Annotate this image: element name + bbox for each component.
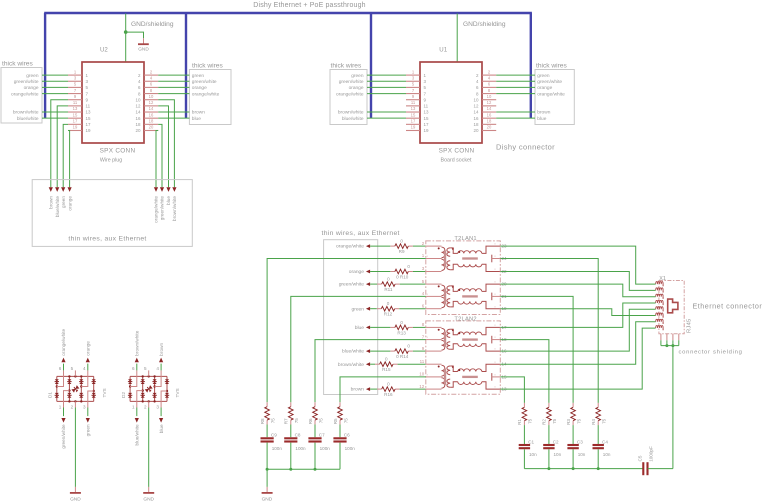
svg-text:13: 13 (424, 110, 430, 115)
diode array D1 column (68, 376, 70, 401)
svg-text:10n: 10n (554, 452, 562, 457)
arrow into aux box blue/white (55, 187, 59, 192)
wire U1 pin14 brown (496, 111, 535, 113)
svg-text:2: 2 (476, 73, 479, 78)
svg-text:x: x (427, 373, 429, 377)
pin 16 of U1 (482, 117, 496, 119)
wire blue arrow to resistor R13 (370, 326, 390, 328)
connector shield legs (660, 334, 662, 341)
svg-text:1000pF: 1000pF (648, 446, 653, 462)
svg-text:5: 5 (144, 366, 147, 371)
svg-text:75: 75 (294, 418, 299, 424)
svg-text:GND: GND (262, 496, 273, 502)
resistor R16 0 ohm (377, 388, 382, 390)
diode array D1 column (93, 376, 95, 401)
svg-text:7: 7 (74, 88, 77, 93)
svg-text:17: 17 (411, 119, 416, 124)
capacitor C4 10n (593, 444, 604, 446)
svg-text:green: green (351, 73, 364, 79)
svg-text:C3: C3 (577, 439, 583, 444)
svg-text:20: 20 (149, 125, 154, 130)
svg-text:15: 15 (86, 116, 92, 121)
svg-text:11: 11 (420, 359, 425, 364)
svg-text:U1: U1 (439, 46, 447, 53)
wire C9 to ground rail (266, 443, 268, 470)
resistor R9 0 ohm (390, 245, 395, 247)
svg-text:4: 4 (150, 75, 153, 80)
svg-text:blue: blue (159, 424, 164, 433)
svg-text:75: 75 (528, 418, 533, 424)
svg-text:8: 8 (138, 91, 141, 96)
capacitor C7 100n (308, 437, 321, 439)
svg-text:blue/white: blue/white (55, 196, 60, 218)
svg-text:GND/shielding: GND/shielding (463, 21, 506, 28)
svg-text:GND: GND (138, 46, 149, 51)
pin 15 of U1 (406, 117, 420, 119)
svg-text:green/white: green/white (61, 424, 66, 449)
pin 9 of U2 (68, 99, 82, 101)
svg-text:SPX CONN: SPX CONN (100, 147, 136, 154)
box thin wires aux Ethernet left (32, 180, 192, 247)
svg-text:4: 4 (156, 366, 159, 371)
wire resistor R9 to transformer (413, 245, 426, 247)
wire R4 to C4 (597, 425, 599, 444)
wire U2 pin9 to aux brown (51, 100, 68, 188)
svg-text:10n: 10n (578, 452, 586, 457)
pin 15 of U2 (68, 117, 82, 119)
capacitor C6 100n (333, 437, 346, 439)
wire branch to GND symbol (126, 32, 144, 38)
svg-text:3: 3 (86, 79, 89, 84)
junction on GND tap (124, 30, 128, 34)
svg-text:13: 13 (73, 106, 78, 111)
svg-text:x: x (427, 335, 429, 339)
pin 3 of U2 (68, 80, 82, 82)
wire U1 pin13 brown/white (367, 111, 406, 113)
svg-text:orange: orange (349, 85, 364, 91)
svg-text:T2LAN2: T2LAN2 (454, 316, 476, 322)
svg-text:100n: 100n (295, 446, 306, 451)
svg-text:11: 11 (424, 104, 429, 109)
transformer unit 2 secondary winding (447, 286, 450, 294)
wire ground rail 100n group (267, 468, 340, 470)
arrow net blue (159, 418, 163, 423)
diode array D2 column (129, 376, 131, 401)
svg-text:1: 1 (132, 404, 135, 409)
wire orange/white to D1 (63, 364, 65, 371)
wire shield down to C5 net (672, 346, 674, 469)
pin 5 of X1 RJ45 contact (656, 307, 663, 310)
pin 8 of U2 (144, 93, 158, 95)
resistor R7 75 ohm (290, 402, 292, 406)
svg-text:6: 6 (488, 82, 491, 87)
svg-text:orange/white: orange/white (336, 91, 364, 97)
svg-text:brown/white: brown/white (338, 110, 364, 116)
svg-text:10: 10 (487, 94, 492, 99)
svg-text:brown/white: brown/white (172, 196, 177, 221)
node green/white aux label + arrow (366, 282, 370, 286)
svg-text:thick wires: thick wires (536, 63, 567, 70)
wire U1 pin3 to thick wires (367, 80, 406, 82)
svg-text:brown: brown (192, 110, 205, 116)
wire primary center tap to R5 (340, 377, 426, 402)
wire R1 to C1 (523, 425, 525, 444)
wire U2 pin18 to aux green/white (158, 124, 162, 187)
svg-text:orange/white: orange/white (192, 91, 220, 97)
svg-text:orange: orange (537, 85, 552, 91)
wire U2 pin17 to aux green (63, 124, 68, 187)
diode array D2 column (154, 376, 156, 401)
ground GND 100n group (266, 487, 268, 493)
svg-text:5: 5 (424, 85, 427, 90)
svg-text:20: 20 (487, 125, 492, 130)
svg-text:brown/white: brown/white (13, 110, 39, 116)
svg-text:2: 2 (144, 404, 147, 409)
svg-text:8: 8 (150, 88, 153, 93)
svg-text:x: x (427, 292, 429, 296)
ground GND near U2 (143, 38, 145, 44)
pin 6 of D2 (130, 370, 137, 386)
wire shield bus (661, 345, 679, 347)
pin 20 of U2 (144, 129, 158, 131)
junction C5 rail (547, 467, 550, 470)
arrow net green/white (61, 418, 65, 423)
resistor R4 75 ohm (597, 403, 599, 407)
svg-text:10: 10 (473, 97, 479, 102)
wire U2 pin13 brown/white (42, 111, 68, 113)
wire transformer pin 17 to RJ45 pin4 (500, 303, 655, 327)
wire resistor R14 to transformer (413, 350, 426, 352)
wire transformer pin 13 to RJ45 pin8 (500, 328, 655, 389)
svg-text:GND: GND (143, 496, 154, 502)
node blue/white aux label + arrow (366, 349, 370, 353)
svg-text:3: 3 (424, 79, 427, 84)
transformer unit 3 secondary connections (482, 327, 501, 334)
pin 7 of X1 RJ45 contact (656, 319, 663, 322)
wire GND/shielding bus drop left of U1 to pin15 (370, 13, 372, 118)
svg-text:100n: 100n (345, 446, 356, 451)
svg-text:X1: X1 (659, 276, 666, 282)
svg-text:6: 6 (138, 85, 141, 90)
wire secondary center tap to R3 (500, 296, 573, 403)
svg-text:16: 16 (135, 116, 141, 121)
svg-text:brown: brown (159, 343, 164, 356)
svg-text:14: 14 (473, 110, 479, 115)
wire U2 pin1 to thick wires (42, 74, 68, 76)
arrow into aux box green/white (160, 187, 164, 192)
wire resistor R12 to transformer (399, 308, 426, 310)
wire resistor R10 to transformer (413, 271, 426, 273)
wire U2 pin5 to thick wires (42, 86, 68, 88)
pin 1 of U1 (406, 74, 420, 76)
transformer unit 2 secondary core (462, 295, 478, 297)
svg-text:7: 7 (86, 91, 89, 96)
resistor R1 75 ohm (523, 403, 525, 407)
transformer unit 3 secondary core (462, 338, 478, 340)
svg-text:8: 8 (422, 322, 425, 327)
wire resistor R16 to transformer (400, 388, 426, 390)
wire orange/white arrow to resistor R9 (370, 245, 390, 247)
svg-text:75: 75 (343, 418, 348, 424)
svg-text:4: 4 (422, 291, 425, 296)
diode array D2 junctions (142, 375, 144, 377)
svg-text:75: 75 (576, 418, 581, 424)
arrow net blue/white (135, 418, 139, 423)
svg-text:connector shielding: connector shielding (679, 350, 743, 356)
svg-text:blue/white: blue/white (135, 424, 140, 446)
svg-text:D2: D2 (121, 392, 126, 398)
wire C2 to C5 rail (548, 449, 550, 468)
svg-text:C2: C2 (553, 439, 559, 444)
svg-text:brown: brown (351, 387, 365, 393)
pin 19 of U1 (406, 129, 420, 131)
transformer unit 1 secondary winding (447, 248, 450, 256)
package outline T2LAN2 (426, 321, 501, 394)
svg-text:10n: 10n (603, 452, 611, 457)
svg-text:green/white: green/white (339, 79, 364, 85)
wire R3 to C3 (572, 425, 574, 444)
svg-text:Board socket: Board socket (441, 157, 472, 163)
svg-text:orange: orange (86, 341, 91, 356)
svg-text:blue/white: blue/white (17, 116, 39, 122)
svg-text:14: 14 (487, 106, 492, 111)
transformer unit 1 core (444, 250, 446, 267)
svg-text:100n: 100n (272, 446, 283, 451)
wire primary center tap to R7 (291, 296, 426, 402)
diode array D1 column (56, 376, 58, 401)
wire blue/white from D2 (136, 408, 138, 417)
capacitor C5 1000pF (642, 462, 644, 475)
wire U2 pin7 to thick wires (42, 93, 68, 95)
junction shield (665, 344, 668, 347)
pin 8 of X1 RJ45 contact (656, 326, 663, 329)
svg-text:U2: U2 (100, 46, 108, 53)
wire C7 to ground rail (314, 443, 316, 470)
svg-text:0: 0 (387, 382, 390, 387)
svg-text:75: 75 (318, 418, 323, 424)
transformer unit 3 secondary winding (447, 329, 450, 337)
svg-text:brown: brown (537, 110, 550, 116)
svg-text:thick wires: thick wires (331, 63, 362, 70)
svg-text:R13: R13 (397, 330, 406, 335)
pin 12 of U1 (482, 105, 496, 107)
pin 14 of U2 (144, 111, 158, 113)
diode array D1 junctions (68, 375, 70, 377)
pin 12 of U2 (144, 105, 158, 107)
svg-text:7: 7 (424, 91, 427, 96)
svg-text:orange: orange (67, 196, 72, 211)
svg-text:2: 2 (71, 404, 74, 409)
arrow into aux box orange/white (154, 187, 158, 192)
wire blue/white arrow to resistor R14 (370, 350, 390, 352)
svg-text:17: 17 (73, 119, 78, 124)
wire GND/shielding bus drop right of U1 to pin16 (530, 13, 532, 118)
wire orange arrow to resistor R10 (370, 271, 390, 273)
svg-text:4: 4 (476, 79, 479, 84)
svg-text:10: 10 (135, 97, 141, 102)
svg-text:blue/white: blue/white (342, 349, 364, 355)
wire C1 to C5 rail (523, 449, 525, 468)
wire U2 pin3 to thick wires (42, 80, 68, 82)
wire resistor R11 to transformer (400, 283, 426, 285)
svg-text:0: 0 (387, 301, 390, 306)
wire transformer pin 14 to RJ45 pin7 (500, 322, 655, 364)
svg-text:2: 2 (150, 69, 153, 74)
svg-text:9: 9 (412, 94, 415, 99)
svg-text:10n: 10n (529, 452, 537, 457)
svg-text:7: 7 (422, 334, 425, 339)
svg-text:Ethernet connector: Ethernet connector (693, 302, 763, 311)
svg-text:0: 0 (407, 344, 410, 349)
pin 3 of U1 (406, 80, 420, 82)
box thick wires left of U1 (330, 70, 367, 125)
pin 6 of U2 (144, 86, 158, 88)
wire C8 to ground rail (290, 443, 292, 470)
svg-text:green/white: green/white (339, 282, 365, 288)
wire U2 pin2 to thick wires (158, 74, 189, 76)
svg-text:12: 12 (419, 384, 425, 389)
resistor R6 75 ohm (314, 402, 316, 406)
svg-text:0: 0 (387, 277, 390, 282)
arrow net brown/white (135, 358, 139, 363)
svg-text:C6: C6 (344, 433, 350, 438)
svg-text:7: 7 (412, 88, 415, 93)
svg-text:18: 18 (473, 122, 479, 127)
wire GND tap from bus to U2 shield pin (125, 14, 127, 63)
svg-text:R11: R11 (384, 287, 393, 292)
svg-text:x: x (494, 242, 496, 246)
svg-text:15: 15 (424, 116, 430, 121)
svg-text:brown: brown (49, 196, 54, 209)
wire C5 rail right (648, 468, 673, 470)
resistor R3 75 ohm (572, 403, 574, 407)
svg-text:thick wires: thick wires (192, 63, 223, 70)
pin 2 of U1 (482, 74, 496, 76)
svg-text:T2LAN1: T2LAN1 (454, 236, 476, 242)
wire U2 pin10 to aux brown/white (158, 100, 174, 188)
arrow into aux box green (61, 187, 65, 192)
wire green arrow to resistor R12 (370, 308, 377, 310)
svg-text:16: 16 (149, 112, 154, 117)
svg-text:1: 1 (422, 253, 425, 258)
svg-text:15: 15 (411, 112, 416, 117)
wire C6 to ground rail (339, 443, 341, 470)
diode array D1 column (80, 376, 82, 401)
svg-text:C4: C4 (602, 439, 608, 444)
node orange/white aux label + arrow (366, 244, 370, 248)
svg-text:0: 0 (407, 264, 410, 269)
wire U2 pin4 to thick wires (158, 80, 189, 82)
svg-text:R5: R5 (333, 418, 338, 424)
resistor R2 75 ohm (548, 403, 550, 407)
wire secondary center tap to R1 (500, 377, 524, 403)
node orange aux label + arrow (366, 270, 370, 274)
svg-text:x: x (494, 267, 496, 271)
resistor R8 75 ohm (266, 402, 268, 406)
svg-text:R8: R8 (260, 418, 265, 424)
resistor R10 0 ohm (390, 271, 395, 273)
diode array D1 zener (71, 385, 80, 393)
pin 5 of U2 (68, 86, 82, 88)
box thin wires aux Ethernet right (324, 240, 378, 395)
svg-text:5: 5 (74, 82, 77, 87)
svg-text:0: 0 (400, 320, 403, 325)
wire green/white from D1 (63, 408, 65, 417)
wire secondary center tap to R4 (500, 259, 598, 403)
pin 13 of U2 (68, 111, 82, 113)
pin 4 of D2 (155, 370, 162, 386)
wire GND/shielding bus top (44, 12, 532, 14)
svg-text:R7: R7 (284, 418, 289, 424)
wire blue from D2 (160, 408, 162, 417)
wire transformer pin 23 to RJ45 pin1 (500, 246, 655, 284)
svg-text:18: 18 (487, 119, 492, 124)
svg-text:12: 12 (487, 100, 492, 105)
svg-text:blue: blue (537, 116, 546, 122)
svg-text:75: 75 (552, 418, 557, 424)
svg-text:R2: R2 (542, 419, 547, 425)
resistor R11 0 ohm (377, 283, 382, 285)
wire R2 to C2 (548, 425, 550, 444)
pin 1 of D2 (137, 391, 143, 408)
svg-text:orange/white: orange/white (154, 196, 159, 223)
svg-text:thick wires: thick wires (2, 61, 33, 68)
svg-text:thin wires, aux Ethernet: thin wires, aux Ethernet (68, 235, 146, 242)
svg-text:11: 11 (411, 100, 416, 105)
wire transformer pin 16 to RJ45 pin5 (500, 309, 655, 351)
box thick wires right of U2 (189, 70, 231, 125)
svg-text:6: 6 (59, 366, 62, 371)
wire C5 rail left (524, 468, 643, 470)
wire D2 pin2 to GND (148, 408, 150, 487)
resistor R13 0 ohm (390, 326, 395, 328)
diode array D2 zener (145, 385, 154, 393)
svg-text:0: 0 (400, 239, 403, 244)
arrow into aux box orange (68, 187, 72, 192)
pin 3 of D1 (88, 391, 94, 408)
wire green from D1 (87, 408, 89, 417)
pin 17 of U2 (68, 123, 82, 125)
svg-text:brown/white: brown/white (338, 362, 364, 368)
diode array D2 column (166, 376, 168, 401)
svg-text:11: 11 (86, 104, 91, 109)
transformer unit 4 secondary core (462, 376, 478, 378)
svg-text:4: 4 (488, 75, 491, 80)
svg-text:9: 9 (86, 97, 89, 102)
svg-text:9: 9 (422, 346, 425, 351)
svg-text:green: green (86, 424, 91, 436)
svg-text:green/white: green/white (192, 79, 217, 85)
svg-text:14: 14 (135, 110, 141, 115)
svg-text:Dishy Ethernet + PoE passthrou: Dishy Ethernet + PoE passthrough (253, 2, 365, 9)
wire green/white arrow to resistor R11 (370, 283, 377, 285)
pin 2 of D2 (148, 401, 150, 407)
wire brown to D2 (160, 364, 162, 371)
wire GND tap from bus to U1 shield pin (456, 14, 458, 63)
svg-text:R16: R16 (384, 392, 393, 397)
svg-text:D1: D1 (48, 392, 53, 398)
wire brown/white to D2 (136, 364, 138, 371)
wire U2 pin12 to aux blue (158, 106, 168, 187)
svg-text:75: 75 (602, 418, 607, 424)
wire U2 pin20 to aux orange/white (156, 130, 158, 187)
svg-text:6: 6 (476, 85, 479, 90)
pin 5 of U1 (406, 86, 420, 88)
svg-text:x: x (494, 254, 496, 258)
svg-text:5: 5 (86, 85, 89, 90)
svg-text:C9: C9 (271, 433, 277, 438)
junction ground rail (266, 468, 269, 471)
